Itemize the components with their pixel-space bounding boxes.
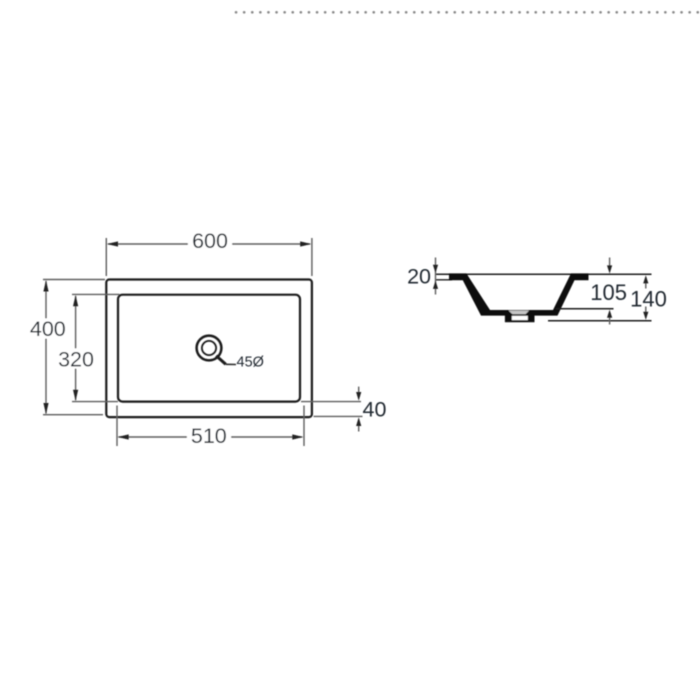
svg-text:105: 105 bbox=[590, 280, 627, 305]
svg-text:600: 600 bbox=[192, 229, 228, 253]
dimension 510: dimension line with arrows bbox=[118, 434, 304, 439]
dimension 105: outside arrows bbox=[607, 258, 612, 325]
tap hole inner circle bbox=[202, 341, 216, 355]
section top surface line bbox=[436, 273, 652, 275]
svg-text:400: 400 bbox=[30, 317, 66, 341]
dotted separator line (top) bbox=[236, 11, 700, 14]
svg-text:40: 40 bbox=[363, 397, 387, 421]
dimension 600: extension lines bbox=[106, 238, 312, 276]
section rim underside short line (left) bbox=[436, 279, 453, 281]
drain recess (grey trapezoid) bbox=[509, 311, 530, 315]
dimension 510: text bbox=[187, 424, 231, 448]
dimension 40: extension lines bbox=[301, 402, 363, 417]
dimension 320: extension lines bbox=[72, 294, 120, 401]
basin inner rim rectangle (plan) bbox=[118, 295, 300, 402]
svg-text:45Ø: 45Ø bbox=[237, 354, 264, 370]
dimension 140: text bbox=[630, 287, 667, 312]
svg-text:20: 20 bbox=[407, 264, 431, 288]
svg-text:510: 510 bbox=[191, 424, 227, 448]
section line at overall depth (140 reference) bbox=[548, 320, 652, 322]
dimension 20: text bbox=[407, 264, 431, 288]
dimension 600: dimension line with arrows bbox=[107, 241, 312, 246]
section line at bowl inner depth (105 reference) bbox=[556, 308, 614, 310]
drain flange body bbox=[505, 315, 535, 322]
dimension 400: text bbox=[28, 317, 67, 341]
svg-text:320: 320 bbox=[58, 347, 94, 371]
dimension 600: text bbox=[188, 229, 232, 253]
label 45 dia bbox=[237, 354, 264, 370]
basin outer rectangle (plan) bbox=[106, 280, 312, 418]
basin cross-section profile (filled) bbox=[449, 273, 589, 315]
dimension 40: text bbox=[363, 397, 387, 421]
dimension 20: dimension line and outside arrows bbox=[433, 258, 438, 295]
dimension 320: dimension line with arrows bbox=[73, 295, 78, 401]
dimension 320: text bbox=[57, 347, 96, 371]
dimension 105: text bbox=[590, 280, 627, 305]
tap hole outer circle bbox=[197, 336, 222, 361]
dimension 400: dimension line with arrows bbox=[43, 280, 48, 414]
dimension 140: inside arrows bbox=[643, 275, 648, 320]
dimension 510: extension lines bbox=[117, 406, 304, 447]
dimension 400: extension lines bbox=[43, 280, 105, 415]
svg-text:140: 140 bbox=[630, 287, 667, 312]
leader line for 45 dia label bbox=[216, 356, 236, 365]
dimension 40: arrows (outside) bbox=[356, 387, 361, 432]
drain hole opening bbox=[512, 316, 528, 320]
